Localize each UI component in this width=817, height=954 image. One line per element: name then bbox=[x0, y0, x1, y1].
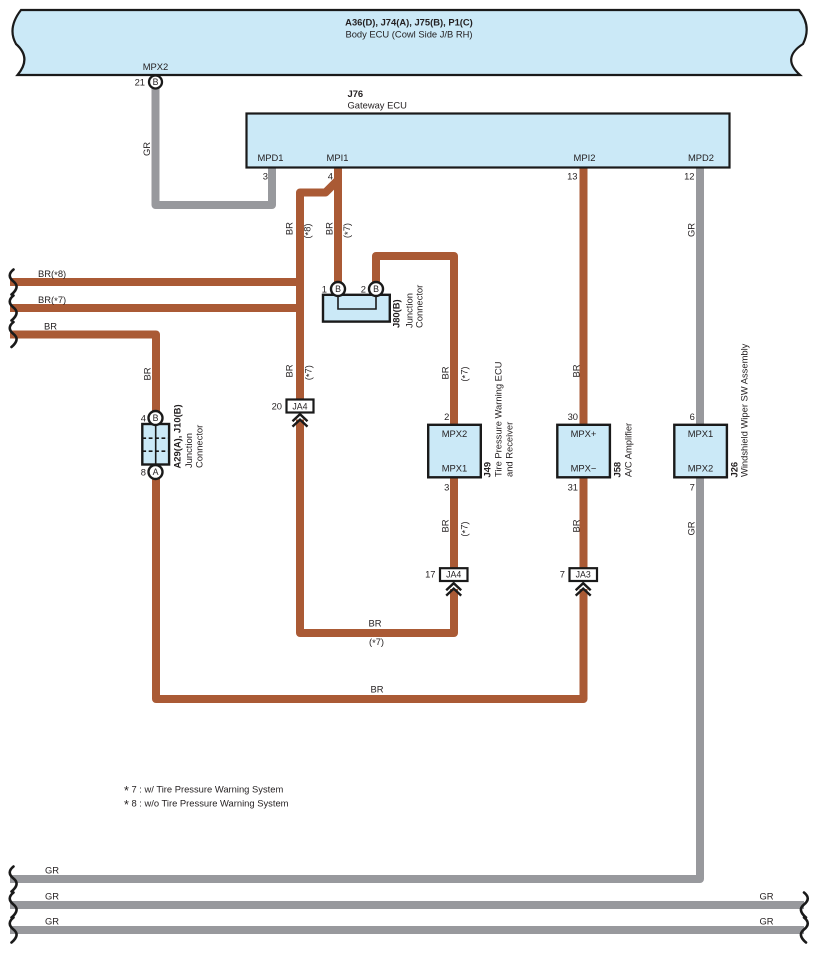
svg-text:2: 2 bbox=[444, 411, 449, 422]
svg-text:BR: BR bbox=[571, 519, 582, 532]
svg-text:17: 17 bbox=[425, 569, 435, 580]
break symbol right wire GR3 bbox=[801, 918, 808, 943]
svg-text:1: 1 bbox=[322, 284, 327, 295]
svg-text:MPI2: MPI2 bbox=[574, 152, 596, 163]
svg-text:(*7): (*7) bbox=[341, 223, 353, 238]
svg-text:BR(*7): BR(*7) bbox=[38, 294, 66, 306]
svg-text:BR: BR bbox=[142, 367, 153, 380]
svg-text:7: 7 bbox=[560, 569, 565, 580]
svg-text:BR(*8): BR(*8) bbox=[38, 268, 66, 280]
svg-text:4: 4 bbox=[328, 171, 333, 182]
svg-text:B: B bbox=[335, 284, 341, 294]
svg-text:GR: GR bbox=[686, 521, 697, 535]
wire GR from A36 MPX2 pin21 to J76 MPD1 pin3 bbox=[156, 86, 273, 205]
svg-text:BR: BR bbox=[440, 519, 451, 532]
svg-text:MPX1: MPX1 bbox=[442, 463, 468, 474]
svg-text:BR: BR bbox=[284, 222, 295, 235]
wire BR(*7) from J80 pin2 up right and down to J49 pin2 bbox=[376, 256, 454, 425]
svg-text:J58: J58 bbox=[612, 462, 623, 478]
svg-text:and Receiver: and Receiver bbox=[504, 422, 515, 477]
svg-text:Body ECU (Cowl Side J/B RH): Body ECU (Cowl Side J/B RH) bbox=[345, 29, 472, 40]
junction connector J80(B) bbox=[323, 295, 390, 322]
svg-text:MPX2: MPX2 bbox=[143, 61, 169, 72]
switch J26 Windshield Wiper SW Assembly box bbox=[674, 425, 727, 478]
svg-text:13: 13 bbox=[567, 171, 577, 182]
svg-text:Connector: Connector bbox=[194, 425, 205, 468]
svg-text:GR: GR bbox=[45, 865, 59, 876]
svg-text:GR: GR bbox=[759, 916, 773, 927]
svg-text:Junction: Junction bbox=[183, 433, 194, 468]
svg-text:A36(D), J74(A), J75(B), P1(C): A36(D), J74(A), J75(B), P1(C) bbox=[345, 17, 473, 28]
svg-text:MPX+: MPX+ bbox=[571, 428, 597, 439]
svg-text:(*7): (*7) bbox=[459, 521, 471, 536]
svg-text:3: 3 bbox=[444, 482, 449, 493]
wire GR horizontal full width second bbox=[10, 901, 804, 909]
component A36(D) J74(A) J75(B) P1(C) Body ECU bar bbox=[12, 10, 806, 75]
svg-text:BR: BR bbox=[368, 618, 381, 629]
svg-text:GR: GR bbox=[141, 142, 152, 156]
wire BR(*7) from JA4 pin20 down right and up to JA4 pin17 bbox=[300, 420, 454, 634]
wire BR from J76 MPI1 pin4 down to J80 pin1 bbox=[334, 167, 342, 289]
break symbol left wire GR2 bbox=[10, 893, 17, 918]
svg-text:MPD1: MPD1 bbox=[257, 152, 283, 163]
svg-text:2: 2 bbox=[361, 284, 366, 295]
svg-text:* 7 : w/ Tire Pressure Warning: * 7 : w/ Tire Pressure Warning System bbox=[124, 784, 283, 798]
wire BR from J58 pin31 down to JA3 pin7 bbox=[580, 477, 588, 569]
wire BR(*7) horizontal from left break to x300 bbox=[10, 304, 300, 312]
svg-text:3: 3 bbox=[263, 171, 268, 182]
svg-text:BR: BR bbox=[323, 222, 334, 235]
svg-text:BR: BR bbox=[44, 321, 57, 332]
wire BR horizontal from left break to A29 junction connector bbox=[10, 335, 156, 414]
svg-text:BR: BR bbox=[370, 684, 383, 695]
svg-text:GR: GR bbox=[686, 223, 697, 237]
svg-text:(*7): (*7) bbox=[303, 365, 315, 380]
break symbol right wire GR2 bbox=[801, 893, 808, 918]
svg-text:MPX−: MPX− bbox=[571, 463, 597, 474]
svg-text:Gateway ECU: Gateway ECU bbox=[348, 100, 408, 111]
svg-text:20: 20 bbox=[272, 401, 282, 412]
svg-text:MPD2: MPD2 bbox=[688, 152, 714, 163]
svg-text:6: 6 bbox=[690, 411, 695, 422]
svg-text:BR: BR bbox=[571, 364, 582, 377]
svg-text:(*7): (*7) bbox=[369, 636, 384, 648]
junction connector A29(A) J10(B) bbox=[142, 424, 169, 465]
svg-text:B: B bbox=[373, 284, 379, 294]
wire GR horizontal full width third bbox=[10, 926, 804, 934]
svg-text:GR: GR bbox=[759, 891, 773, 902]
svg-text:A29(A), J10(B): A29(A), J10(B) bbox=[172, 404, 183, 468]
svg-text:JA4: JA4 bbox=[292, 401, 307, 411]
svg-text:MPI1: MPI1 bbox=[327, 152, 349, 163]
ECU J76 Gateway ECU box bbox=[247, 114, 730, 168]
svg-text:J76: J76 bbox=[348, 88, 364, 99]
svg-text:(*8): (*8) bbox=[301, 223, 313, 238]
svg-text:BR: BR bbox=[284, 364, 295, 377]
svg-text:A/C Amplifier: A/C Amplifier bbox=[623, 423, 634, 477]
svg-text:GR: GR bbox=[45, 891, 59, 902]
svg-text:MPX1: MPX1 bbox=[688, 428, 714, 439]
svg-text:(*7): (*7) bbox=[459, 366, 471, 381]
svg-text:7: 7 bbox=[690, 482, 695, 493]
wire BR from A29 pinA down right and up to JA3 bbox=[156, 477, 584, 699]
svg-text:J49: J49 bbox=[482, 462, 493, 478]
ECU J49 Tire Pressure Warning ECU and Receiver box bbox=[428, 425, 481, 478]
svg-text:GR: GR bbox=[45, 916, 59, 927]
svg-text:21: 21 bbox=[135, 77, 145, 88]
svg-text:B: B bbox=[153, 77, 159, 87]
svg-text:* 8 : w/o Tire Pressure Warnin: * 8 : w/o Tire Pressure Warning System bbox=[124, 798, 289, 812]
svg-text:MPX2: MPX2 bbox=[688, 463, 714, 474]
svg-text:A: A bbox=[153, 467, 159, 477]
break symbol left wire BR(*7) bbox=[10, 296, 17, 321]
wire GR from J26 pin7 down and left to break bbox=[10, 477, 700, 879]
break symbol left wire GR3 bbox=[10, 918, 17, 943]
svg-text:JA3: JA3 bbox=[576, 570, 591, 580]
wire BR(*8) horizontal from left break to x300 bbox=[10, 278, 300, 286]
svg-text:4: 4 bbox=[141, 413, 146, 424]
svg-text:JA4: JA4 bbox=[446, 570, 461, 580]
svg-text:Windshield Wiper SW Assembly: Windshield Wiper SW Assembly bbox=[739, 343, 750, 477]
break symbol left wire GR1 bbox=[10, 867, 17, 892]
svg-text:8: 8 bbox=[141, 467, 146, 478]
svg-text:Connector: Connector bbox=[414, 285, 425, 328]
svg-text:J80(B): J80(B) bbox=[391, 299, 402, 328]
wire BR(*7) from J49 pin3 down to JA4 pin17 bbox=[450, 477, 458, 569]
svg-text:31: 31 bbox=[568, 482, 578, 493]
svg-text:MPX2: MPX2 bbox=[442, 428, 468, 439]
svg-text:B: B bbox=[153, 413, 159, 423]
break symbol left wire BR(*8) bbox=[10, 270, 17, 295]
svg-text:30: 30 bbox=[568, 411, 578, 422]
break symbol left wire BR bbox=[10, 322, 17, 347]
ECU J58 A/C Amplifier box bbox=[557, 425, 610, 478]
svg-text:BR: BR bbox=[440, 366, 451, 379]
svg-text:Tire Pressure Warning ECU: Tire Pressure Warning ECU bbox=[493, 361, 504, 477]
wire BR(*8) branch from pin4 wire to vertical x300 down to JA4 pin20 bbox=[300, 180, 338, 400]
svg-text:12: 12 bbox=[684, 171, 694, 182]
wire BR from J76 MPI2 pin13 down to J58 pin30 bbox=[580, 167, 588, 425]
wire GR from J76 MPD2 pin12 down to J26 pin6 bbox=[696, 167, 704, 425]
